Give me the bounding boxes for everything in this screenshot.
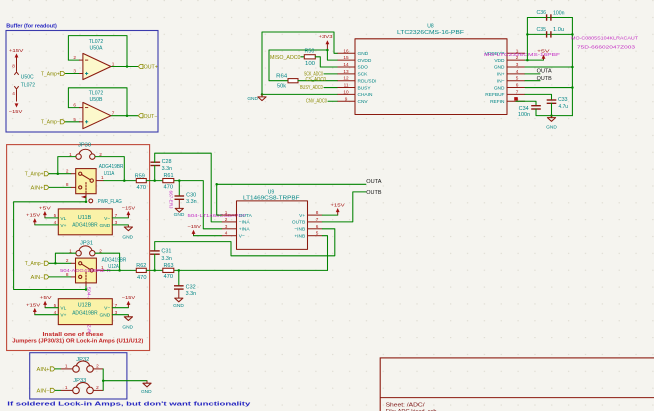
junction U50B output	[126, 114, 129, 117]
svg-text:4.7u: 4.7u	[559, 104, 569, 110]
svg-text:3.3n: 3.3n	[186, 199, 197, 205]
svg-text:−15V: −15V	[188, 224, 202, 230]
capacitor C36	[537, 10, 565, 21]
ground symbol (C32)	[173, 298, 184, 309]
svg-text:AIN−: AIN−	[37, 389, 50, 395]
svg-text:OUTA: OUTA	[239, 213, 253, 219]
svg-text:+15V: +15V	[9, 48, 25, 54]
op-amp U50A feedback wire	[68, 36, 127, 67]
svg-text:2: 2	[66, 258, 69, 263]
junction R62 row	[118, 269, 121, 272]
svg-text:12: 12	[343, 76, 349, 81]
svg-text:2: 2	[73, 55, 76, 60]
svg-text:U50A: U50A	[90, 45, 104, 51]
svg-text:TL072: TL072	[89, 91, 104, 97]
svg-text:+15V: +15V	[26, 213, 41, 219]
svg-text:5: 5	[316, 231, 319, 236]
capacitor C35	[537, 27, 565, 38]
svg-text:C30: C30	[186, 193, 196, 199]
wire right GND rail	[571, 18, 573, 116]
svg-text:3: 3	[115, 310, 118, 315]
svg-text:8: 8	[316, 210, 319, 215]
wire U50A pin3	[65, 73, 80, 75]
svg-text:+5V: +5V	[537, 49, 551, 55]
svg-text:GND: GND	[494, 85, 505, 91]
junction VDD rail	[526, 59, 529, 62]
svg-text:T_Amp+: T_Amp+	[41, 71, 60, 77]
svg-text:V−: V−	[104, 306, 110, 312]
svg-text:3.3n: 3.3n	[162, 166, 173, 172]
svg-text:U9: U9	[268, 190, 275, 196]
svg-text:V+: V+	[60, 313, 66, 319]
svg-text:−INA: −INA	[239, 220, 251, 226]
svg-text:15: 15	[343, 55, 349, 60]
power +5V (U8 VDD)	[537, 49, 551, 61]
svg-text:ADG419BR: ADG419BR	[99, 164, 124, 170]
svg-text:3: 3	[516, 62, 519, 67]
svg-text:GND: GND	[100, 313, 111, 319]
svg-text:+5V: +5V	[39, 205, 52, 211]
power +5V (U11B)	[39, 205, 52, 218]
svg-text:2: 2	[66, 169, 69, 174]
label SCK_ADC0 + wire	[304, 72, 338, 78]
note: section frame (blue)	[6, 31, 158, 133]
magenta MPN text C35/C36	[571, 35, 638, 49]
svg-text:JP30: JP30	[78, 143, 91, 149]
svg-text:TL072: TL072	[21, 82, 35, 88]
svg-text:REFBUF: REFBUF	[485, 92, 504, 98]
svg-text:GND: GND	[122, 235, 133, 241]
svg-text:100n: 100n	[553, 10, 565, 16]
svg-text:667-ERJ: 667-ERJ	[169, 191, 174, 209]
junction GND row	[261, 93, 264, 96]
svg-text:OUT+: OUT+	[144, 65, 158, 71]
section frame (red)	[7, 145, 150, 351]
svg-text:V+: V+	[60, 223, 66, 229]
svg-text:CNV: CNV	[358, 99, 369, 105]
junction REFIN	[514, 97, 517, 100]
svg-text:U50B: U50B	[90, 97, 104, 103]
svg-text:−INB: −INB	[294, 227, 305, 233]
IC U9 LT1469 body	[237, 190, 308, 250]
svg-text:GND: GND	[247, 96, 258, 102]
power -15V (U12B)	[122, 295, 136, 308]
svg-text:16: 16	[343, 48, 349, 53]
svg-text:3: 3	[225, 224, 228, 229]
wire OUTB net	[322, 192, 366, 222]
ground symbol (JP32/33)	[141, 381, 152, 395]
ground symbol (C33/C34)	[546, 116, 557, 131]
svg-text:OUTA: OUTA	[537, 69, 553, 75]
capacitor C32	[174, 270, 196, 298]
power +15V (U12B)	[26, 302, 41, 314]
wire pin4 IN+ stub	[525, 73, 540, 75]
wire left cap rail	[527, 18, 572, 61]
svg-text:ADG419BR: ADG419BR	[72, 223, 98, 229]
svg-text:REFIN: REFIN	[490, 99, 505, 105]
svg-text:V+: V+	[299, 213, 305, 219]
wire JP30 pin2 to R59 row	[95, 157, 124, 181]
ground symbol (U11B)	[122, 225, 133, 241]
wire AIN- to JP33	[55, 389, 61, 391]
svg-text:100: 100	[305, 61, 315, 67]
svg-text:BUSY: BUSY	[358, 85, 372, 91]
svg-text:1: 1	[69, 248, 72, 253]
svg-text:U8: U8	[427, 23, 434, 29]
svg-text:470: 470	[137, 185, 147, 191]
junction C31 tap	[153, 269, 156, 272]
svg-text:LTC2326CMS-16-PBF: LTC2326CMS-16-PBF	[397, 30, 464, 36]
wire REFIN to C34	[516, 101, 536, 105]
IC U8 LTC2326 body	[355, 23, 507, 114]
power -15V (U9 V-)	[188, 224, 202, 236]
wire C28 loop to -INA	[155, 153, 222, 222]
wire REFBUF to C33	[525, 94, 552, 100]
svg-text:5: 5	[73, 117, 76, 122]
label BUSY_ADC0 + wire	[300, 85, 338, 91]
ground symbol (U12B)	[122, 315, 133, 331]
junction U50A output	[126, 65, 129, 68]
hier label OUT+	[138, 64, 158, 70]
svg-text:5: 5	[54, 213, 57, 218]
wire JP31 pin1 to T_Amp- row	[55, 253, 75, 263]
svg-text:VDD: VDD	[494, 58, 505, 64]
wire R50 to pin14 SDO	[315, 57, 337, 67]
svg-text:+15V: +15V	[330, 202, 345, 208]
svg-text:C36: C36	[537, 10, 547, 16]
resistor R64	[276, 74, 298, 90]
wire pin6 GND to rail	[525, 87, 572, 89]
svg-text:Sheet: /ADC/: Sheet: /ADC/	[386, 402, 426, 408]
junction OUTA branch	[215, 183, 218, 186]
svg-text:6: 6	[73, 103, 76, 108]
svg-text:C35: C35	[537, 27, 547, 33]
wire -INB loop (under U9)	[155, 229, 335, 256]
svg-text:2: 2	[96, 385, 99, 390]
svg-text:GND: GND	[173, 303, 184, 309]
svg-text:CHAIN: CHAIN	[358, 92, 373, 98]
svg-text:T_Amp−: T_Amp−	[41, 120, 60, 126]
svg-text:BUSY_ADC0: BUSY_ADC0	[300, 85, 323, 91]
ground symbol (C30)	[174, 208, 185, 218]
wire U50A pin2	[68, 59, 79, 61]
wire AIN+ to U11A pin8	[49, 186, 71, 188]
svg-text:SCK: SCK	[358, 72, 369, 78]
section frame (blue, JP32/JP33)	[30, 353, 127, 399]
hier label T_Amp-	[41, 120, 65, 126]
svg-text:8: 8	[66, 182, 69, 187]
capacitor C28	[151, 159, 173, 181]
svg-text:RDL/SDI: RDL/SDI	[358, 78, 377, 84]
svg-text:R62: R62	[136, 263, 146, 269]
svg-text:OUTB: OUTB	[537, 76, 553, 82]
wire MISO to R50	[301, 56, 304, 58]
wire U50B pin5	[65, 121, 80, 123]
svg-text:U11B: U11B	[78, 215, 92, 221]
junction pin3 rail	[571, 66, 574, 69]
junction T_Amp+	[57, 172, 60, 175]
svg-text:MO-C0805S104KLRACAUT: MO-C0805S104KLRACAUT	[571, 35, 638, 40]
svg-text:14: 14	[343, 62, 349, 67]
svg-text:GND: GND	[122, 324, 133, 330]
svg-text:R61: R61	[164, 173, 174, 179]
svg-text:7: 7	[516, 89, 519, 94]
junction switch common B	[85, 288, 88, 291]
wire U11A out to R59	[104, 180, 137, 182]
hier label AIN- (switch)	[31, 275, 50, 281]
power +15V (U11B)	[26, 213, 41, 225]
wire AIN- to U12A pin8	[49, 276, 71, 278]
junction switch common A	[85, 201, 88, 204]
svg-text:AIN+: AIN+	[31, 185, 44, 191]
wire pin3 GND to rail	[525, 66, 572, 68]
svg-text:470: 470	[164, 274, 174, 280]
svg-text:MISO_ADC0: MISO_ADC0	[270, 55, 301, 61]
svg-text:3.3n: 3.3n	[186, 291, 197, 297]
svg-text:Buffer (for readout): Buffer (for readout)	[6, 23, 57, 29]
wire pin5 IN- stub	[525, 80, 540, 82]
wire GND pin (U12B)	[112, 314, 128, 316]
svg-text:75D-66602047Z003: 75D-66602047Z003	[577, 45, 636, 50]
svg-text:C31: C31	[161, 248, 171, 254]
wire U50B pin6	[68, 107, 79, 109]
svg-text:GND: GND	[546, 124, 557, 130]
analog switch U11A	[66, 164, 124, 197]
wire GND loop to pin16	[262, 32, 338, 94]
power +15V (U9 V+)	[330, 202, 345, 215]
svg-text:13: 13	[343, 69, 349, 74]
junction C33 bottom	[550, 114, 553, 117]
ground symbol (SPI loop)	[247, 94, 266, 102]
hier label T_Amp+	[41, 71, 65, 77]
wire +15V to V+	[35, 224, 59, 226]
wire +3V3 to pin15 OVDD	[327, 50, 337, 60]
svg-text:1: 1	[65, 385, 68, 390]
wire output U50A	[111, 66, 138, 68]
wire GND pin (U11B)	[112, 224, 128, 226]
resistor R62	[136, 263, 146, 281]
svg-text:2: 2	[99, 248, 102, 253]
svg-text:5: 5	[516, 76, 519, 81]
power +3V3	[319, 34, 333, 50]
power +5V (U12B)	[40, 295, 53, 308]
wire V- to -15V (U12B)	[112, 307, 128, 309]
svg-text:1: 1	[65, 363, 68, 368]
svg-text:T_Amp+: T_Amp+	[25, 172, 44, 178]
junction jumper outputs	[102, 379, 105, 382]
svg-text:2: 2	[96, 363, 99, 368]
wire big loop (U11A to U12A common)	[14, 202, 86, 290]
svg-text:OUTA: OUTA	[366, 179, 382, 185]
svg-text:If soldered Lock-in Amps, but: If soldered Lock-in Amps, but don't want…	[7, 401, 250, 407]
capacitor C30	[175, 181, 197, 209]
svg-text:ADG419BR: ADG419BR	[72, 310, 98, 316]
jumper JP33	[61, 378, 104, 394]
svg-text:9: 9	[345, 96, 348, 101]
hier label T_Amp- (switch)	[25, 261, 49, 267]
U8 left pins 16..9	[338, 48, 377, 105]
svg-text:C32: C32	[186, 284, 196, 290]
junction pin6 rail	[571, 86, 574, 89]
wire bottom rail C33/C34	[536, 103, 572, 115]
svg-text:5: 5	[54, 303, 57, 308]
svg-text:3: 3	[115, 220, 118, 225]
wire CS row	[298, 80, 338, 82]
jumper JP30	[69, 143, 102, 160]
power -15V (buffer)	[9, 103, 23, 115]
wire T_Amp+ to U11A pin2	[49, 173, 71, 175]
svg-text:11: 11	[344, 83, 349, 88]
svg-text:100n: 100n	[518, 112, 530, 118]
title block frame	[380, 358, 654, 411]
wire OUTA net	[217, 184, 366, 215]
svg-text:GND: GND	[141, 389, 152, 395]
svg-text:TL072: TL072	[89, 39, 104, 45]
svg-text:Install one of these: Install one of these	[43, 332, 104, 338]
svg-text:6: 6	[516, 83, 519, 88]
svg-text:OUTB: OUTB	[292, 220, 305, 226]
svg-text:GND: GND	[100, 223, 111, 229]
svg-text:R64: R64	[276, 74, 287, 80]
svg-text:470: 470	[137, 275, 147, 281]
resistor R50	[304, 49, 315, 67]
svg-text:V−: V−	[104, 216, 110, 222]
svg-text:4: 4	[54, 220, 57, 225]
svg-text:OUTB: OUTB	[366, 190, 382, 196]
hier label T_Amp+ (switch)	[25, 172, 49, 178]
resistor R63	[163, 263, 174, 280]
capacitor C34	[518, 106, 541, 119]
op-amp U50B	[73, 91, 114, 129]
hier label AIN- (jumper)	[37, 388, 56, 394]
junction C32 tap	[178, 269, 181, 272]
wire pin2 VDD to +5V and rail	[525, 59, 544, 61]
wire +3V3 pull-up loop to R64	[269, 50, 327, 81]
hier label AIN+ (jumper)	[37, 367, 56, 373]
svg-text:OVDD: OVDD	[358, 58, 372, 64]
svg-text:+3V3: +3V3	[319, 34, 333, 40]
svg-text:4: 4	[54, 310, 57, 315]
wire C35 row	[527, 33, 572, 35]
junction C30 tap	[178, 179, 181, 182]
junction C28 tap	[153, 179, 156, 182]
svg-text:3: 3	[73, 69, 76, 74]
svg-text:7: 7	[316, 217, 319, 222]
svg-text:AIN+: AIN+	[37, 367, 50, 373]
svg-text:2: 2	[99, 152, 102, 157]
svg-text:OUT−: OUT−	[144, 114, 158, 120]
svg-text:R63: R63	[164, 263, 174, 269]
wire +5V to VL	[45, 217, 58, 219]
wire +5V to VL (U12B)	[45, 307, 58, 309]
svg-text:−15V: −15V	[122, 206, 136, 212]
wire AIN+ to JP32	[55, 368, 61, 370]
analog switch U12A	[66, 257, 127, 286]
power -15V (U11B)	[122, 206, 136, 218]
svg-text:Jumpers (JP30/31) OR Lock-in A: Jumpers (JP30/31) OR Lock-in Amps (U11/U…	[12, 338, 143, 344]
svg-text:IN−: IN−	[497, 78, 505, 84]
svg-text:U50C: U50C	[21, 75, 34, 81]
svg-text:C34: C34	[519, 106, 529, 112]
svg-text:1: 1	[225, 210, 228, 215]
svg-text:R50: R50	[305, 49, 315, 55]
svg-text:GND: GND	[494, 65, 505, 71]
junction C35 right	[571, 33, 574, 36]
wire R62 row to +INB corner	[146, 269, 327, 271]
svg-text:+INA: +INA	[239, 227, 251, 233]
wire T_Amp- to U12A pin2	[49, 262, 71, 264]
svg-text:4: 4	[12, 91, 15, 96]
capacitor C31	[150, 248, 172, 270]
wire +INB riser	[322, 236, 327, 271]
wire U12A out to R62	[104, 269, 137, 271]
wire V+ to +15V (U9)	[322, 214, 337, 216]
wire output U50B	[111, 115, 138, 117]
svg-text:7: 7	[115, 213, 118, 218]
resistor R61	[163, 173, 174, 190]
wire R59 row to +INA corner	[146, 181, 222, 229]
svg-text:+INB: +INB	[294, 234, 305, 240]
svg-text:C33: C33	[558, 97, 568, 103]
svg-text:3.3n: 3.3n	[161, 256, 172, 262]
svg-text:IN+: IN+	[497, 72, 505, 78]
svg-text:1: 1	[69, 152, 72, 157]
svg-text:2: 2	[225, 217, 228, 222]
svg-text:U12B: U12B	[78, 303, 92, 309]
svg-text:−15V: −15V	[9, 109, 23, 115]
svg-text:T_Amp−: T_Amp−	[25, 261, 44, 267]
power block U11B	[54, 209, 118, 235]
power +15V (buffer)	[9, 48, 25, 61]
label CNV_ADC0 + wire	[306, 99, 338, 105]
svg-text:CS_ADC0: CS_ADC0	[306, 77, 327, 83]
svg-text:R59: R59	[135, 173, 145, 179]
op-amp U50B feedback wire	[68, 88, 127, 116]
junction T_Amp-	[54, 262, 57, 265]
svg-text:C28: C28	[162, 159, 172, 165]
hier label OUT-	[138, 114, 157, 120]
svg-text:+5V: +5V	[40, 295, 53, 301]
wire V- to -15V	[112, 217, 128, 219]
svg-text:VL: VL	[60, 306, 66, 312]
PWR_FLAG	[81, 196, 122, 206]
svg-text:4: 4	[225, 231, 228, 236]
svg-text:PWR_FLAG: PWR_FLAG	[98, 199, 122, 205]
svg-text:GND: GND	[174, 212, 185, 218]
svg-text:LT1469CS8-TRPBF: LT1469CS8-TRPBF	[243, 196, 300, 202]
junction R59 row	[123, 179, 126, 182]
svg-text:1: 1	[112, 61, 115, 66]
op-amp U50C power unit	[12, 61, 35, 102]
op-amp U50A	[73, 39, 114, 80]
wire JP31 pin2 to R62 row	[95, 253, 120, 270]
junction +3V3	[326, 49, 329, 52]
jumper JP32	[61, 357, 104, 372]
resistor R59	[135, 173, 147, 191]
power block U12B	[54, 299, 118, 325]
capacitor C33	[547, 97, 569, 110]
svg-text:V−: V−	[239, 234, 245, 240]
svg-text:AIN−: AIN−	[31, 275, 44, 281]
svg-text:7: 7	[112, 111, 115, 116]
svg-text:VL: VL	[60, 216, 66, 222]
svg-text:1.0u: 1.0u	[553, 27, 564, 33]
hier label AIN+ (switch)	[31, 185, 50, 191]
svg-text:SDO: SDO	[358, 65, 369, 71]
wire V- to -15V (U9)	[194, 235, 222, 237]
svg-text:10: 10	[343, 89, 349, 94]
svg-text:−15V: −15V	[122, 295, 136, 301]
